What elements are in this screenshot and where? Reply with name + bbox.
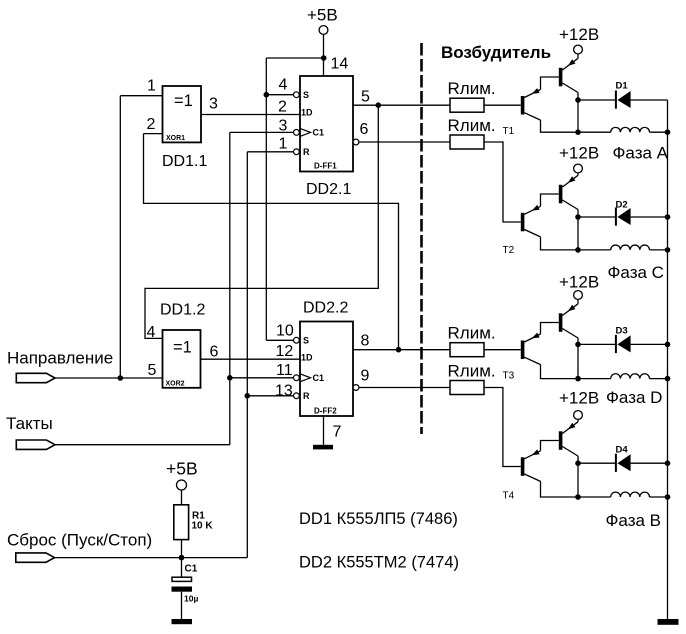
svg-text:Rлим.: Rлим.: [448, 116, 496, 135]
wire R-lim 2 to T2 base: [484, 142, 521, 222]
ground bus: [658, 619, 679, 625]
svg-text:S: S: [303, 90, 309, 100]
svg-text:5: 5: [361, 89, 370, 106]
svg-text:C1: C1: [313, 373, 325, 383]
wire collector node to winding rail stage 4: [577, 463, 579, 497]
transistor T1 output (PNP): [559, 68, 563, 87]
svg-text:Сброс (Пуск/Стоп): Сброс (Пуск/Стоп): [7, 531, 152, 550]
svg-text:12: 12: [276, 343, 294, 360]
node collector T4: [575, 460, 581, 466]
node diode D3 anode on bus: [665, 342, 671, 348]
xor-gate DD1.1 body: [163, 86, 202, 142]
node direction junction: [118, 375, 124, 381]
svg-text:Rлим.: Rлим.: [448, 324, 496, 343]
wire DD2.1 R input: [247, 151, 293, 153]
wire C1 to ground: [181, 592, 183, 619]
svg-text:T1: T1: [503, 126, 515, 137]
bubble DD2.1 Q-bar: [353, 139, 359, 145]
wire DD2.2 R input: [247, 395, 293, 397]
node S column at DD2.1 S: [264, 92, 270, 98]
wire Sbros to reset column: [55, 557, 248, 559]
svg-text:6: 6: [360, 121, 369, 138]
bubble DD2.2 R: [294, 393, 300, 399]
capacitor C1: [172, 577, 192, 581]
wire reset column (Sbros to both R): [246, 152, 248, 558]
svg-text:R: R: [303, 147, 310, 157]
svg-text:2: 2: [147, 116, 156, 133]
svg-text:DD2 К555ТМ2 (7474): DD2 К555ТМ2 (7474): [299, 554, 459, 572]
bubble DD2.1 C1: [294, 130, 300, 136]
transistor T4 input (PNP): [521, 457, 525, 476]
svg-text:D1: D1: [616, 81, 629, 92]
divider dashed line: [420, 43, 423, 434]
svg-text:Такты: Такты: [6, 414, 53, 433]
svg-text:R: R: [303, 391, 310, 401]
transistor T3 output (PNP): [559, 313, 563, 332]
wire DD1.1 pin 1: [120, 95, 162, 97]
svg-text:3: 3: [209, 96, 218, 113]
transistor T4 output (PNP): [559, 431, 563, 450]
wire common return bus: [667, 100, 669, 619]
svg-text:1: 1: [147, 78, 156, 95]
wire collector node to winding rail stage 2: [577, 217, 579, 250]
wire DD2.1 Q output to R-lim 1: [353, 104, 450, 106]
node collector T2: [575, 214, 581, 220]
svg-text:Фаза В: Фаза В: [606, 511, 662, 530]
ground DD2.2 pin 7: [313, 445, 333, 450]
svg-text:14: 14: [331, 56, 349, 73]
svg-text:DD1.2: DD1.2: [160, 302, 205, 319]
node Sbros/R1/C1 junction: [179, 555, 185, 561]
inductor phase winding stage 4: [611, 492, 650, 497]
wire Napravlenie to DD1.2 pin 5: [55, 377, 163, 379]
svg-text:10: 10: [276, 323, 294, 340]
svg-text:7: 7: [333, 424, 342, 441]
node diode D4 anode on bus: [665, 460, 671, 466]
svg-text:+5В: +5В: [166, 459, 198, 479]
bubble DD2.2 Q-bar: [353, 385, 359, 391]
diode D1: [578, 99, 615, 101]
svg-text:11: 11: [276, 362, 293, 379]
svg-text:DD1 К555ЛП5 (7486): DD1 К555ЛП5 (7486): [299, 510, 458, 528]
wire pin-1 column down to direction net: [119, 96, 121, 378]
svg-text:10µ: 10µ: [184, 594, 198, 604]
bubble DD2.2 C1: [294, 375, 300, 381]
bubble DD2.1 S: [294, 92, 300, 98]
wire DD2.2 C1 input: [230, 377, 294, 379]
svg-text:Фаза А: Фаза А: [613, 144, 669, 163]
wire feedback DD2.1-Q to DD1.2 pin 4: [145, 105, 378, 338]
node winding rail stage 3: [575, 376, 581, 382]
wire to DD2.1 S input: [266, 94, 293, 96]
transistor T1 input (PNP): [521, 96, 525, 115]
wire collector node to winding rail stage 1: [577, 100, 579, 132]
d-flip-flop DD2.2 body: [300, 322, 353, 417]
svg-text:9: 9: [361, 368, 370, 385]
node DD2.1 Q feedback junction: [376, 102, 382, 108]
resistor R-lim 2: [450, 135, 484, 149]
svg-text:13: 13: [275, 383, 293, 400]
node winding rail stage 2: [575, 247, 581, 253]
wire Takty to clock column: [55, 444, 230, 446]
node collector T1: [575, 97, 581, 103]
svg-text:Rлим.: Rлим.: [448, 362, 496, 381]
svg-text:T4: T4: [503, 491, 515, 502]
node collector T3: [575, 342, 581, 348]
resistor R1: [174, 505, 189, 540]
resistor R-lim 3: [450, 343, 484, 357]
svg-text:D3: D3: [616, 326, 628, 337]
transistor T2 output (PNP): [559, 185, 563, 204]
wire collector node to winding rail stage 3: [577, 344, 579, 378]
node +5V junction: [321, 55, 327, 61]
svg-text:1: 1: [279, 136, 288, 153]
wire +5V branch to S column: [266, 57, 323, 59]
svg-text:S: S: [303, 336, 309, 346]
svg-text:8: 8: [361, 333, 370, 350]
svg-text:10 K: 10 K: [192, 521, 214, 532]
bubble DD2.2 S: [294, 337, 300, 343]
wire clock column (Takty to both C1): [229, 132, 231, 444]
diode D3: [578, 343, 615, 345]
node winding to bus stage 1: [665, 129, 671, 135]
bubble DD2.1 R: [294, 149, 300, 155]
svg-text:4: 4: [279, 77, 288, 94]
wire DD2.1 Q-bar output to R-lim 2: [359, 141, 450, 143]
diode D4: [578, 462, 615, 464]
svg-text:Rлим.: Rлим.: [448, 79, 496, 98]
diode D2: [578, 216, 615, 218]
wire R-lim 1 to T1 base: [484, 104, 521, 106]
transistor T2 input (PNP): [521, 213, 525, 232]
xor-gate DD1.2 body: [163, 330, 201, 388]
terminal Sbros: [16, 553, 55, 562]
ground C1: [172, 619, 193, 624]
svg-text:Фаза С: Фаза С: [608, 263, 664, 282]
node winding to bus stage 4: [665, 494, 671, 500]
svg-text:+12В: +12В: [559, 25, 599, 44]
svg-text:T3: T3: [503, 371, 515, 382]
wire R-lim 4 to T4 base: [484, 388, 521, 467]
wire DD2.2 Q-bar output to R-lim 4: [359, 387, 450, 389]
wire DD1.1 pin 2: [144, 133, 163, 135]
wire DD2.1 C1 input: [230, 131, 294, 133]
terminal Takty: [16, 440, 55, 449]
terminal Napravlenie: [16, 373, 55, 382]
node winding rail stage 1: [575, 129, 581, 135]
svg-text:C1: C1: [313, 128, 325, 138]
svg-text:D2: D2: [616, 200, 628, 211]
wire +5V down to DD2.1 pin 14: [323, 34, 325, 76]
svg-text:+12В: +12В: [559, 273, 599, 292]
node reset column at DD2.2 R: [245, 393, 251, 399]
svg-text:4: 4: [147, 324, 156, 341]
svg-text:+5В: +5В: [307, 6, 338, 25]
wire +5V to R1: [181, 490, 183, 505]
resistor R-lim 4: [450, 381, 484, 395]
svg-text:DD1.1: DD1.1: [162, 153, 207, 170]
svg-text:1D: 1D: [301, 353, 313, 363]
svg-text:C1: C1: [185, 564, 198, 575]
svg-text:=1: =1: [173, 339, 192, 357]
svg-text:D-FF2: D-FF2: [314, 406, 337, 415]
svg-text:D-FF1: D-FF1: [314, 162, 337, 171]
d-flip-flop DD2.1 body: [300, 76, 353, 172]
wire DD1.1 output to DD2.1 1D: [201, 114, 300, 116]
svg-text:6: 6: [210, 344, 219, 361]
svg-text:XOR2: XOR2: [166, 381, 185, 388]
wire S column (+5V to both S inputs): [265, 58, 267, 340]
svg-text:2: 2: [278, 99, 287, 116]
svg-text:+12В: +12В: [559, 389, 599, 408]
node diode D2 anode on bus: [665, 214, 671, 220]
node winding to bus stage 2: [665, 247, 671, 253]
wire DD2.2 Q output to R-lim 3: [353, 349, 450, 351]
wire R1 to junction: [181, 540, 183, 578]
resistor R-lim 1: [450, 98, 484, 112]
svg-text:DD2.2: DD2.2: [303, 300, 348, 317]
svg-text:Фаза D: Фаза D: [606, 388, 662, 407]
svg-text:+12В: +12В: [559, 144, 599, 163]
node winding to bus stage 3: [665, 376, 671, 382]
inductor phase winding stage 1: [611, 127, 650, 132]
transistor T3 input (PNP): [521, 341, 525, 360]
wire to DD2.2 S input: [266, 339, 293, 341]
node winding rail stage 4: [575, 494, 581, 500]
svg-text:Возбудитель: Возбудитель: [441, 43, 551, 62]
svg-text:DD2.1: DD2.1: [306, 181, 351, 198]
svg-text:XOR1: XOR1: [166, 135, 185, 142]
wire feedback DD2.2-Q to DD1.1 pin 2: [144, 134, 399, 350]
svg-text:1D: 1D: [301, 107, 313, 117]
node feedback at DD2.2 Q: [396, 347, 402, 353]
svg-text:T2: T2: [503, 245, 515, 256]
inductor phase winding stage 3: [611, 374, 650, 379]
inductor phase winding stage 2: [611, 245, 650, 250]
wire DD2.2 pin 7 to ground: [323, 416, 325, 445]
svg-text:5: 5: [148, 362, 157, 379]
wire R-lim 3 to T3 base: [484, 349, 521, 351]
wire DD1.2 output to DD2.2 1D: [201, 358, 301, 360]
svg-text:=1: =1: [174, 92, 193, 110]
svg-text:Направление: Направление: [7, 349, 113, 368]
svg-text:D4: D4: [616, 445, 629, 456]
node clock column at DD2.2 C1: [227, 375, 233, 381]
